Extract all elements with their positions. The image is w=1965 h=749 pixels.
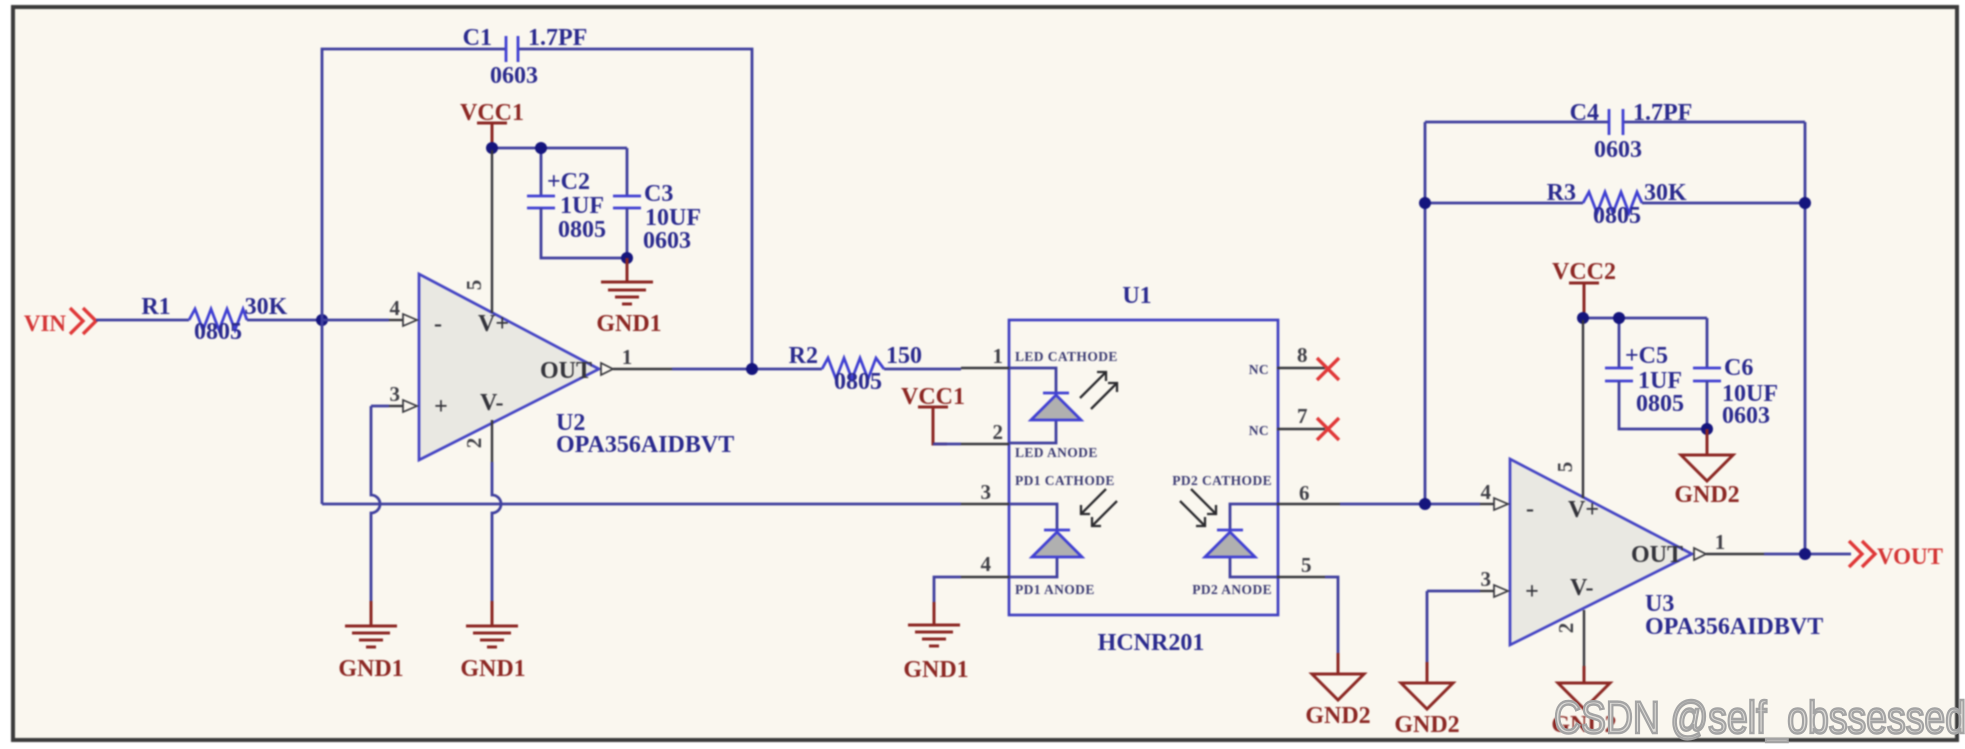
port VIN <box>24 308 96 336</box>
wire C4 feedback loop <box>1425 122 1805 554</box>
capacitor C1 <box>463 25 588 89</box>
svg-text:0805: 0805 <box>834 369 882 395</box>
svg-text:0805: 0805 <box>1593 203 1641 229</box>
svg-text:GND1: GND1 <box>596 311 661 337</box>
junction output-C4 <box>1799 548 1811 560</box>
wire C5 C6 bottoms <box>1619 381 1707 429</box>
U2 pin 2 <box>462 420 492 462</box>
svg-text:6: 6 <box>1299 481 1310 505</box>
wire U2 output net <box>613 368 672 370</box>
svg-text:GND2: GND2 <box>1674 482 1739 508</box>
wire U1 pin4 to GND1 <box>934 577 961 602</box>
wire C2 C3 bottoms <box>541 208 627 258</box>
svg-text:GND1: GND1 <box>460 656 525 682</box>
wire C1 feedback loop <box>322 49 752 504</box>
svg-text:C6: C6 <box>1724 355 1753 381</box>
svg-text:LED CATHODE: LED CATHODE <box>1015 349 1118 364</box>
svg-text:0603: 0603 <box>490 63 538 89</box>
svg-text:HCNR201: HCNR201 <box>1098 630 1205 656</box>
wire U2 pin2 to GND1 <box>492 462 501 601</box>
wire VCC2 rail <box>1583 318 1707 368</box>
svg-text:GND2: GND2 <box>1305 703 1370 729</box>
svg-text:NC: NC <box>1249 423 1269 438</box>
U3 pin 2 <box>1554 610 1584 666</box>
wire R3 net <box>1425 202 1805 205</box>
resistor R1 <box>141 294 287 345</box>
U2 pin 3 <box>371 382 417 412</box>
PD1 receive arrows <box>1081 489 1117 526</box>
ground GND1 at pin2 <box>460 601 525 682</box>
svg-text:3: 3 <box>981 480 992 504</box>
U3 pin 4 <box>1480 480 1508 510</box>
ground GND2 at C6 <box>1674 429 1739 508</box>
svg-text:PD1 CATHODE: PD1 CATHODE <box>1015 473 1115 488</box>
svg-text:C4: C4 <box>1570 100 1599 126</box>
ground GND1 at pin3 <box>338 601 403 682</box>
svg-text:OPA356AIDBVT: OPA356AIDBVT <box>556 432 734 458</box>
svg-text:1: 1 <box>993 344 1004 368</box>
wire U1 pin5 to GND2 <box>1325 577 1338 653</box>
U1 pin 4 stub <box>961 552 1009 577</box>
svg-text:GND2: GND2 <box>1394 712 1459 738</box>
svg-text:30K: 30K <box>245 294 288 320</box>
svg-text:2: 2 <box>993 420 1004 444</box>
svg-text:R2: R2 <box>789 343 818 369</box>
junction VCC2-pin5 <box>1577 312 1589 324</box>
svg-text:OUT: OUT <box>1631 542 1683 568</box>
svg-text:+C5: +C5 <box>1625 343 1668 369</box>
svg-text:V-: V- <box>1570 575 1594 601</box>
svg-text:PD1 ANODE: PD1 ANODE <box>1015 582 1095 597</box>
svg-text:-: - <box>434 311 442 337</box>
U3 pin 1 output <box>1694 530 1725 560</box>
junction R3 left <box>1419 197 1431 209</box>
no-connect X pin8 <box>1317 358 1339 380</box>
svg-text:0805: 0805 <box>558 217 606 243</box>
svg-text:OPA356AIDBVT: OPA356AIDBVT <box>1645 614 1823 640</box>
no-connect X pin7 <box>1317 418 1339 440</box>
wire VCC1 to U1 pin2 <box>933 443 961 446</box>
U1 LED internal wiring <box>1009 368 1056 443</box>
power VCC1 second <box>901 384 965 444</box>
resistor R2 <box>789 343 922 395</box>
U1 photodiode PD2 <box>1172 473 1272 597</box>
capacitor C2 <box>527 169 606 243</box>
junction VCC2-C5 <box>1613 312 1625 324</box>
junction VCC1-C2 <box>535 142 547 154</box>
U1 pin 3 stub <box>961 480 1009 504</box>
power VCC1 <box>460 100 524 148</box>
svg-text:GND1: GND1 <box>903 657 968 683</box>
svg-text:4: 4 <box>981 552 992 576</box>
wire R2 to U1 pin1 <box>884 368 961 371</box>
svg-text:0805: 0805 <box>194 319 242 345</box>
svg-text:+C2: +C2 <box>547 169 590 195</box>
port VOUT <box>1849 541 1943 569</box>
svg-text:C3: C3 <box>644 181 673 207</box>
capacitor C3 <box>613 181 701 254</box>
node A junction <box>316 314 328 326</box>
U1 pin 7 NC <box>1249 404 1325 438</box>
U1 pin 5 stub <box>1277 553 1325 577</box>
svg-text:4: 4 <box>1481 480 1492 504</box>
svg-text:+: + <box>434 394 448 420</box>
svg-text:V+: V+ <box>1568 497 1599 523</box>
svg-text:GND1: GND1 <box>338 656 403 682</box>
svg-text:R1: R1 <box>141 294 170 320</box>
svg-text:NC: NC <box>1249 362 1269 377</box>
wire VIN to R1 <box>96 319 189 322</box>
wire inverting net to U1 pin3 (with hops) <box>322 503 961 506</box>
svg-text:-: - <box>1526 496 1534 522</box>
svg-text:OUT: OUT <box>540 358 592 384</box>
svg-text:150: 150 <box>886 343 922 369</box>
junction R3 right <box>1799 197 1811 209</box>
U3 pin 3 <box>1427 567 1508 597</box>
U2 pin 5 <box>462 150 492 313</box>
resistor R3 <box>1547 180 1687 229</box>
ground GND2 at U3 pin3 <box>1394 662 1459 738</box>
junction C6 bottom <box>1701 423 1713 435</box>
wire U3 pin3 to GND2 <box>1426 591 1429 662</box>
svg-text:V-: V- <box>480 390 504 416</box>
optocoupler U1 box <box>1009 283 1278 656</box>
capacitor C4 <box>1570 100 1693 163</box>
power VCC2 <box>1552 259 1616 318</box>
wire R1 to node A <box>247 319 322 322</box>
U1 LED diode <box>1015 349 1118 460</box>
capacitor C5 <box>1605 343 1684 417</box>
svg-text:C1: C1 <box>463 25 492 51</box>
U2 pin 1 output <box>601 345 632 375</box>
svg-text:PD2 ANODE: PD2 ANODE <box>1192 582 1272 597</box>
svg-text:V+: V+ <box>478 311 509 337</box>
wire U3 output to VOUT <box>1706 553 1764 555</box>
svg-text:5: 5 <box>1553 462 1577 473</box>
LED emission arrows <box>1080 372 1117 409</box>
svg-text:8: 8 <box>1297 343 1308 367</box>
capacitor C6 <box>1693 355 1778 429</box>
op-amp U3 <box>1510 459 1823 645</box>
ground GND2 at U1 pin5 <box>1305 653 1370 729</box>
ground GND1 at C3 <box>596 258 661 337</box>
wire U1 pin6 to U3 <box>1340 503 1480 506</box>
svg-text:0603: 0603 <box>1594 137 1642 163</box>
svg-text:1: 1 <box>622 345 633 369</box>
PD2 receive arrows <box>1180 489 1216 526</box>
svg-text:5: 5 <box>1301 553 1312 577</box>
wire U2 pin3 to GND1 <box>371 406 380 601</box>
junction C3 bottom <box>621 252 633 264</box>
svg-text:1.7PF: 1.7PF <box>528 25 587 51</box>
svg-text:VOUT: VOUT <box>1877 544 1943 569</box>
U1 pin 1 stub <box>961 344 1009 368</box>
U1 pin 2 stub <box>961 420 1009 444</box>
U1 photodiode PD1 <box>1015 473 1115 597</box>
svg-text:0603: 0603 <box>643 228 691 254</box>
junction output-C1 <box>746 363 758 375</box>
svg-text:3: 3 <box>1481 567 1492 591</box>
svg-text:4: 4 <box>390 296 401 320</box>
svg-text:PD2 CATHODE: PD2 CATHODE <box>1172 473 1272 488</box>
svg-text:1.7PF: 1.7PF <box>1633 100 1692 126</box>
svg-text:3: 3 <box>390 382 401 406</box>
U1 PD2 internal wiring <box>1230 504 1277 577</box>
svg-text:2: 2 <box>1554 623 1578 634</box>
junction VCC1-pin5 <box>486 142 498 154</box>
svg-text:1UF: 1UF <box>560 193 604 219</box>
op-amp U2 <box>419 274 734 460</box>
U1 PD1 internal wiring <box>1009 504 1057 577</box>
svg-text:CSDN @self_obssessed: CSDN @self_obssessed <box>1554 692 1965 743</box>
svg-text:7: 7 <box>1297 404 1308 428</box>
svg-text:VCC2: VCC2 <box>1552 259 1616 285</box>
svg-text:+: + <box>1525 579 1539 605</box>
ground GND1 at U1 pin4 <box>903 602 968 683</box>
svg-text:2: 2 <box>462 438 486 449</box>
U1 pin 8 NC <box>1249 343 1325 377</box>
svg-text:1: 1 <box>1715 530 1726 554</box>
U2 pin 4 <box>322 296 417 326</box>
U3 pin 5 <box>1553 320 1583 498</box>
U1 pin 6 stub <box>1277 481 1340 505</box>
svg-text:VIN: VIN <box>24 311 67 336</box>
wire VCC1 rail <box>492 148 627 196</box>
svg-text:0603: 0603 <box>1722 403 1770 429</box>
junction U3 pin4 <box>1419 498 1431 510</box>
svg-text:U1: U1 <box>1122 283 1151 309</box>
svg-text:0805: 0805 <box>1636 391 1684 417</box>
svg-text:5: 5 <box>462 280 486 291</box>
svg-text:LED ANODE: LED ANODE <box>1015 445 1098 460</box>
ground GND2 at U3 pin2 <box>1551 666 1616 738</box>
